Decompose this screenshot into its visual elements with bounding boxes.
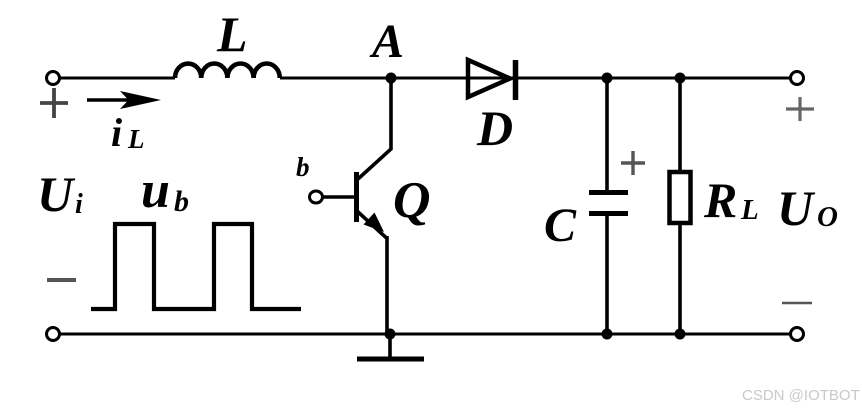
wire bottom main (59, 333, 791, 336)
transistor emitter with arrow (357, 211, 387, 238)
svg-text:O: O (817, 201, 838, 233)
input terminal top-left (47, 72, 60, 85)
svg-text:R: R (703, 172, 737, 228)
wire top right of inductor (280, 77, 791, 80)
junction dot top resistor (675, 73, 686, 84)
svg-text:b: b (296, 152, 310, 182)
waveform ub square wave (91, 224, 301, 309)
svg-text:C: C (544, 199, 577, 252)
svg-text:i: i (75, 189, 83, 220)
plus sign capacitor (621, 151, 645, 175)
svg-text:Q: Q (393, 172, 431, 229)
wire emitter vertical (385, 236, 389, 334)
base terminal circle b (310, 191, 323, 203)
node A junction dot (386, 73, 397, 84)
arrow iL (87, 91, 161, 109)
svg-text:D: D (476, 100, 513, 156)
svg-text:A: A (369, 15, 404, 68)
wire top main (59, 77, 175, 80)
svg-text:L: L (127, 124, 145, 154)
svg-text:i: i (111, 110, 122, 155)
capacitor C (589, 78, 628, 334)
svg-text:u: u (141, 162, 170, 219)
ground junction dot (385, 329, 396, 340)
output terminal top-right (791, 72, 804, 85)
minus sign input (47, 278, 76, 282)
resistor RL (670, 78, 691, 334)
inductor L (175, 63, 280, 78)
output terminal bottom-right (791, 328, 804, 341)
junction dot bottom resistor (675, 329, 686, 340)
plus sign output (786, 97, 814, 121)
junction dot bottom capacitor (602, 329, 613, 340)
junction dot top capacitor (602, 73, 613, 84)
svg-text:b: b (174, 185, 189, 218)
transistor base lead wire (322, 195, 354, 198)
diode D (468, 60, 516, 100)
svg-text:U: U (37, 166, 76, 222)
svg-text:CSDN @IOTBOT: CSDN @IOTBOT (742, 387, 860, 404)
minus sign output (782, 302, 812, 305)
plus sign input (40, 88, 68, 118)
svg-text:L: L (740, 194, 759, 226)
wire collector vertical (358, 78, 391, 179)
transistor Q base bar (354, 172, 359, 222)
svg-text:U: U (777, 180, 816, 236)
ground (357, 334, 424, 359)
input terminal bottom-left (47, 328, 60, 341)
svg-text:L: L (216, 6, 248, 62)
